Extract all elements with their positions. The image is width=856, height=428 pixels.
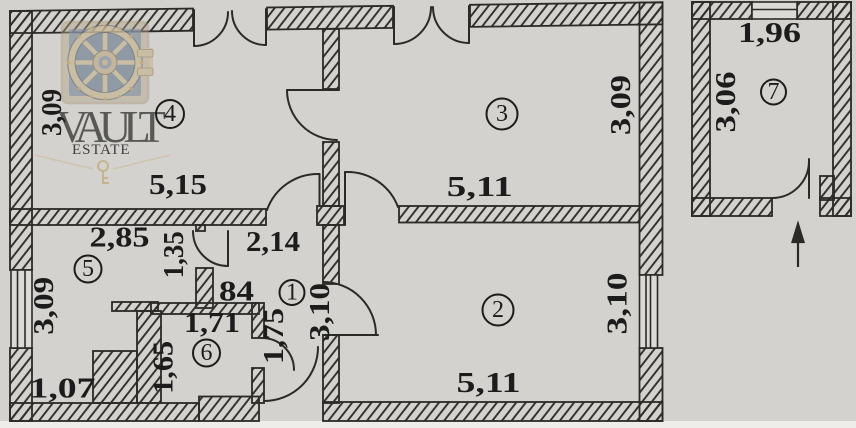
svg-text:3,10: 3,10	[603, 273, 634, 335]
wall column room6 left	[137, 311, 161, 403]
room label 6	[193, 340, 220, 367]
wall annex door pier	[820, 176, 834, 200]
wall hallway right lower	[323, 335, 339, 403]
wall top A	[10, 9, 193, 34]
svg-text:4: 4	[164, 101, 176, 127]
svg-text:1,71: 1,71	[184, 308, 240, 339]
svg-text:1,65: 1,65	[149, 341, 180, 394]
door room4-room3	[287, 89, 339, 91]
door hall-room2	[323, 334, 378, 336]
svg-text:7: 7	[768, 79, 780, 105]
door annex	[808, 159, 810, 198]
svg-text:3,09: 3,09	[606, 75, 637, 135]
wall vertical rooms4-3 upper	[323, 29, 339, 89]
wall left lower	[10, 348, 32, 421]
svg-text:1,35: 1,35	[159, 231, 190, 278]
svg-text:3: 3	[496, 101, 508, 127]
wall bottom right run	[323, 402, 663, 421]
wall right upper	[640, 3, 663, 276]
wall vertical rooms4-3 lower	[323, 142, 339, 206]
room label 7	[761, 79, 786, 105]
wall annex left	[692, 2, 710, 216]
svg-text:ESTATE: ESTATE	[72, 142, 133, 158]
wall block hallway top	[317, 206, 344, 225]
svg-text:5,15: 5,15	[149, 170, 207, 201]
wall stub room5	[112, 302, 158, 311]
door double room4 top	[193, 10, 195, 46]
svg-text:1,07: 1,07	[30, 373, 96, 404]
wall left upper	[10, 11, 32, 270]
wall annex right	[833, 2, 851, 216]
window right room2	[640, 275, 658, 348]
svg-text:3,06: 3,06	[711, 72, 742, 133]
door room6-hall	[262, 338, 294, 370]
wall right lower	[640, 348, 663, 421]
entrance arrow	[793, 224, 804, 267]
room label 1	[280, 280, 305, 306]
wall pier room6 right lower	[252, 368, 264, 403]
svg-text:1,96: 1,96	[738, 18, 801, 49]
svg-text:1,75: 1,75	[259, 308, 290, 364]
wall hallway right upper	[323, 225, 339, 284]
wall mid right rooms3-2	[399, 206, 640, 223]
logo key	[35, 155, 170, 184]
door room5-hall	[227, 231, 229, 266]
room label 5	[75, 256, 102, 283]
wall room6 top	[151, 303, 259, 314]
svg-text:3,09: 3,09	[29, 277, 60, 335]
svg-text:6: 6	[201, 340, 213, 366]
svg-text:5: 5	[82, 256, 94, 282]
wall bottom under room6	[199, 397, 259, 422]
svg-text:3,09: 3,09	[37, 89, 68, 136]
wall annex bottom left	[692, 198, 772, 216]
wall annex bottom right	[820, 198, 851, 216]
logo vault estate	[35, 22, 170, 184]
wall mid left	[10, 209, 266, 225]
wall block room5 lower	[93, 351, 137, 403]
door double room3 top	[393, 7, 395, 44]
door room4-hall	[319, 174, 321, 206]
door room3-room2	[344, 172, 346, 225]
room label 4	[156, 100, 184, 128]
wall room5-hall	[196, 268, 213, 308]
svg-text:5,11: 5,11	[447, 172, 513, 203]
svg-text:2,85: 2,85	[90, 223, 150, 254]
room label 2	[483, 295, 514, 326]
wall top B	[267, 6, 393, 30]
wall annex top right	[797, 2, 851, 19]
svg-text:1: 1	[286, 280, 298, 306]
svg-text:2,14: 2,14	[246, 227, 300, 258]
wall bottom left run	[10, 403, 199, 421]
svg-text:5,11: 5,11	[457, 368, 521, 399]
wall room6 right upper	[252, 303, 264, 338]
window annex top	[752, 2, 797, 19]
svg-text:2: 2	[492, 297, 504, 323]
door entrance	[264, 347, 318, 401]
wall annex top left	[692, 2, 752, 19]
room label 3	[487, 99, 518, 130]
svg-text:84: 84	[219, 277, 254, 308]
svg-text:3,10: 3,10	[305, 283, 336, 341]
bottom light strip	[0, 421, 856, 428]
wall room5 tooth	[196, 225, 205, 231]
wall top C	[470, 2, 663, 27]
window left room5	[11, 270, 32, 348]
